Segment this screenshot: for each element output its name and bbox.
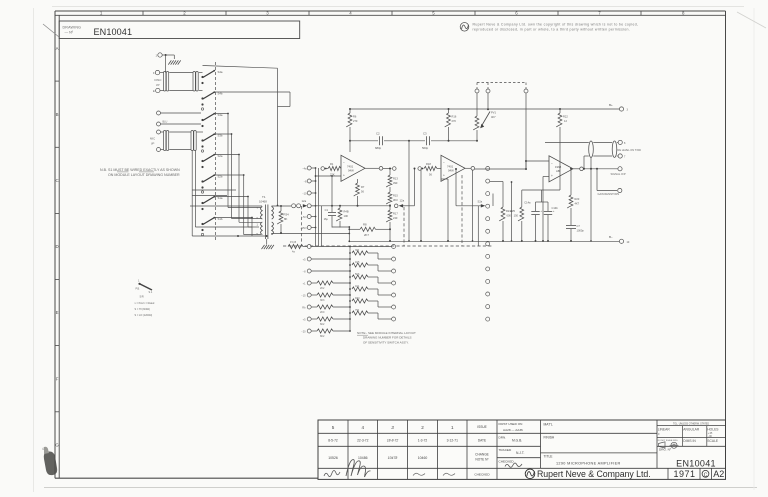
svg-text:FINISH: FINISH bbox=[544, 435, 555, 439]
svg-text:DATE: DATE bbox=[478, 438, 486, 442]
svg-text:DRG. Nº: DRG. Nº bbox=[659, 447, 672, 451]
svg-text:270: 270 bbox=[452, 119, 457, 123]
svg-text:R34: R34 bbox=[284, 213, 290, 217]
svg-text:5K6: 5K6 bbox=[355, 273, 360, 276]
svg-text:R13: R13 bbox=[393, 177, 398, 181]
svg-text:N.J.T.: N.J.T. bbox=[516, 451, 525, 455]
svg-text:10526: 10526 bbox=[328, 456, 338, 460]
svg-text:1K1: 1K1 bbox=[355, 285, 360, 288]
svg-text:DO NOT SCALE DWG: DO NOT SCALE DWG bbox=[658, 439, 678, 442]
svg-text:EN10041: EN10041 bbox=[94, 27, 133, 37]
svg-text:S/R: S/R bbox=[140, 296, 144, 299]
svg-text:10K: 10K bbox=[344, 214, 349, 218]
svg-text:S.1: S.1 bbox=[149, 291, 153, 294]
svg-text:FIRST USED ON: FIRST USED ON bbox=[499, 422, 523, 426]
svg-text:SIGNAL O/P: SIGNAL O/P bbox=[611, 172, 626, 176]
svg-text:1-3-72: 1-3-72 bbox=[418, 439, 428, 443]
svg-text:I/P: I/P bbox=[156, 83, 160, 87]
svg-text:C1: C1 bbox=[325, 208, 329, 212]
svg-text:HOLES: HOLES bbox=[707, 428, 719, 432]
svg-text:12a: 12a bbox=[302, 199, 307, 203]
svg-text:ON MODULE LAYOUT DRAWING N: ON MODULE LAYOUT DRAWING NUMBER bbox=[108, 173, 180, 177]
svg-text:R7: R7 bbox=[361, 185, 365, 189]
svg-text:3-12-71: 3-12-71 bbox=[447, 439, 459, 443]
svg-text:8K: 8K bbox=[284, 217, 288, 221]
svg-text:3K3: 3K3 bbox=[320, 299, 325, 302]
svg-text:G: G bbox=[55, 443, 59, 448]
svg-text:360: 360 bbox=[355, 249, 360, 252]
svg-text:22K: 22K bbox=[330, 173, 335, 177]
svg-text:3: 3 bbox=[391, 425, 394, 430]
svg-text:−10: −10 bbox=[302, 191, 307, 195]
svg-text:C: C bbox=[704, 472, 708, 478]
svg-text:R6: R6 bbox=[353, 115, 357, 119]
svg-text:R40: R40 bbox=[355, 297, 360, 300]
svg-text:B+: B+ bbox=[609, 103, 613, 107]
svg-text:reproduced or disclosed, in pa: reproduced or disclosed, in part or whol… bbox=[473, 27, 631, 31]
svg-text:N.B. S1 MUST BE WIRED EXA: N.B. S1 MUST BE WIRED EXACTLY AS SHOWN bbox=[100, 168, 180, 172]
svg-text:2: 2 bbox=[421, 425, 424, 430]
svg-text:600: 600 bbox=[507, 214, 512, 218]
svg-text:DISC: DISC bbox=[155, 78, 162, 82]
svg-text:−15O: −15O bbox=[300, 226, 306, 230]
svg-text:−: − bbox=[443, 161, 445, 165]
svg-text:DRN.: DRN. bbox=[499, 435, 507, 439]
svg-text:4K7: 4K7 bbox=[491, 115, 496, 119]
svg-text:I/P: I/P bbox=[151, 142, 155, 146]
svg-text:−4a: −4a bbox=[302, 166, 307, 170]
svg-text:+: + bbox=[443, 173, 445, 177]
svg-text:F: F bbox=[56, 376, 59, 381]
svg-text:NOTE:- SEE MODULE INTERNAL: NOTE:- SEE MODULE INTERNAL LAYOUT bbox=[357, 331, 416, 335]
svg-text:22-3-72: 22-3-72 bbox=[357, 439, 369, 443]
svg-text:04W: 04W bbox=[448, 169, 454, 173]
svg-text:E: E bbox=[56, 310, 59, 315]
svg-text:AB: AB bbox=[556, 169, 560, 173]
svg-text:4: 4 bbox=[42, 447, 44, 451]
svg-text:2K2: 2K2 bbox=[320, 287, 325, 290]
svg-text:B−: B− bbox=[609, 235, 613, 239]
svg-text:DRAWING: DRAWING bbox=[63, 25, 82, 29]
svg-text:1: 1 bbox=[451, 425, 454, 430]
svg-text:CHECKED: CHECKED bbox=[474, 473, 490, 477]
svg-text:R15: R15 bbox=[393, 194, 398, 198]
svg-text:2K0: 2K0 bbox=[320, 311, 325, 314]
svg-text:TITLE: TITLE bbox=[544, 454, 554, 458]
svg-text:6K2: 6K2 bbox=[320, 323, 325, 326]
svg-text:1290 MICROPHONE AMPLIFIER: 1290 MICROPHONE AMPLIFIER bbox=[556, 461, 621, 465]
svg-text:10486: 10486 bbox=[358, 456, 368, 460]
svg-text:— Nº: — Nº bbox=[65, 31, 74, 35]
svg-text:B: B bbox=[56, 112, 59, 117]
svg-text:4: 4 bbox=[361, 425, 364, 430]
svg-text:R18: R18 bbox=[426, 162, 431, 166]
svg-text:560p: 560p bbox=[422, 146, 429, 150]
svg-text:150: 150 bbox=[514, 214, 519, 218]
svg-text:MAT'L: MAT'L bbox=[544, 422, 553, 426]
svg-text:1971: 1971 bbox=[674, 469, 696, 479]
svg-text:PV1: PV1 bbox=[491, 111, 496, 115]
svg-text:GAIN RESISTORS: GAIN RESISTORS bbox=[598, 192, 620, 196]
svg-text:D: D bbox=[56, 244, 59, 249]
svg-text:P.B.: P.B. bbox=[136, 288, 141, 291]
svg-text:CHANGE: CHANGE bbox=[475, 453, 489, 457]
svg-text:3K3: 3K3 bbox=[393, 198, 398, 202]
svg-text:+: + bbox=[343, 173, 345, 177]
svg-text:C7: C7 bbox=[577, 224, 581, 228]
svg-text:1K5: 1K5 bbox=[355, 261, 360, 264]
svg-text:−5O: −5O bbox=[302, 215, 307, 219]
svg-text:-.00: -.00 bbox=[708, 436, 713, 438]
svg-text:VR5: VR5 bbox=[510, 209, 516, 213]
svg-text:NOTE Nº: NOTE Nº bbox=[475, 458, 489, 462]
svg-text:R17: R17 bbox=[393, 212, 398, 216]
svg-text:240: 240 bbox=[393, 216, 398, 220]
svg-text:04W: 04W bbox=[348, 169, 354, 173]
svg-text:R16: R16 bbox=[452, 115, 457, 119]
svg-text:8K2: 8K2 bbox=[320, 335, 325, 338]
svg-text:C14a: C14a bbox=[524, 201, 531, 205]
svg-text:S2a: S2a bbox=[478, 199, 483, 203]
svg-text:CHECKED: CHECKED bbox=[499, 460, 515, 464]
svg-text:750: 750 bbox=[355, 309, 360, 312]
svg-text:C14b: C14b bbox=[552, 206, 559, 210]
svg-text:2K7: 2K7 bbox=[364, 233, 369, 237]
svg-text:S = HI (300Ω): S = HI (300Ω) bbox=[135, 308, 151, 311]
svg-text:1000p: 1000p bbox=[577, 229, 585, 233]
svg-text:E: E bbox=[153, 89, 155, 93]
svg-text:−: − bbox=[551, 161, 553, 165]
svg-text:R22: R22 bbox=[563, 115, 568, 119]
svg-text:390: 390 bbox=[393, 181, 398, 185]
svg-text:BLU: BLU bbox=[163, 120, 168, 123]
svg-text:R4B: R4B bbox=[344, 210, 349, 214]
svg-text:P.C.B: P.C.B bbox=[290, 241, 297, 244]
svg-text:−15: −15 bbox=[301, 294, 306, 297]
svg-text:EN10041: EN10041 bbox=[676, 458, 716, 468]
svg-text:MIC: MIC bbox=[150, 137, 155, 141]
svg-text:SCALE: SCALE bbox=[707, 439, 719, 443]
svg-text:ANGULAR: ANGULAR bbox=[683, 428, 700, 432]
svg-text:C2: C2 bbox=[376, 132, 380, 136]
svg-text:10468: 10468 bbox=[259, 200, 267, 204]
svg-text:TOL. UNLESS OTHERW. STATED: TOL. UNLESS OTHERW. STATED bbox=[673, 422, 709, 425]
svg-text:DRAWING NUMBER FOR DETAILS: DRAWING NUMBER FOR DETAILS bbox=[363, 336, 412, 340]
svg-text:M.G.B.: M.G.B. bbox=[512, 439, 522, 443]
svg-text:ISSUE: ISSUE bbox=[477, 425, 487, 429]
svg-text:C3: C3 bbox=[423, 132, 427, 136]
svg-text:8-5-72: 8-5-72 bbox=[328, 439, 338, 443]
svg-text:C: C bbox=[56, 178, 59, 183]
svg-text:RE LEVEL ON TX90: RE LEVEL ON TX90 bbox=[618, 148, 642, 152]
svg-text:5: 5 bbox=[332, 425, 335, 430]
svg-text:R1: R1 bbox=[330, 162, 334, 166]
svg-text:AA28 — AA36: AA28 — AA36 bbox=[503, 428, 523, 432]
svg-text:S = LO (1200Ω): S = LO (1200Ω) bbox=[135, 314, 153, 317]
svg-text:+: + bbox=[551, 174, 553, 178]
svg-text:18-8-72: 18-8-72 bbox=[387, 439, 399, 443]
svg-text:A: A bbox=[56, 46, 59, 51]
svg-text:R23: R23 bbox=[575, 197, 580, 201]
svg-text:Rupert Neve & Company Ltd.: Rupert Neve & Company Ltd. bbox=[537, 469, 651, 479]
svg-text:OF SENSITIVITY SWITCH ASS'Y: OF SENSITIVITY SWITCH ASS'Y. bbox=[363, 340, 409, 344]
svg-text:12a: 12a bbox=[400, 198, 405, 202]
svg-text:270: 270 bbox=[353, 119, 358, 123]
svg-text:A2: A2 bbox=[713, 469, 724, 479]
svg-text:x = Pos'n = Rated: x = Pos'n = Rated bbox=[135, 302, 155, 305]
svg-text:−20: −20 bbox=[301, 330, 306, 333]
svg-text:T1: T1 bbox=[262, 195, 266, 199]
svg-text:10478: 10478 bbox=[388, 456, 398, 460]
svg-text:10460: 10460 bbox=[418, 456, 428, 460]
svg-text:4K7: 4K7 bbox=[575, 202, 580, 206]
svg-text:S4a: S4a bbox=[218, 70, 223, 74]
svg-text:680p: 680p bbox=[375, 146, 382, 150]
svg-text:LINEAR: LINEAR bbox=[658, 428, 671, 432]
svg-text:DIMS IN: DIMS IN bbox=[683, 439, 696, 443]
svg-text:16μ: 16μ bbox=[324, 217, 329, 221]
svg-text:Rupert Neve & Company Ltd. own: Rupert Neve & Company Ltd. own the copyr… bbox=[473, 23, 639, 27]
svg-text:−: − bbox=[343, 161, 345, 165]
svg-text:TRACED: TRACED bbox=[499, 448, 512, 452]
svg-text:R8: R8 bbox=[363, 223, 367, 227]
